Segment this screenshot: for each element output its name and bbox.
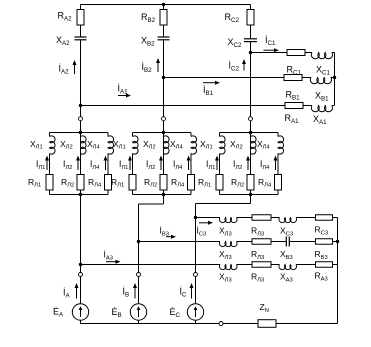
- svg-text:XЛ2: XЛ2: [60, 139, 73, 151]
- wire group 1 branch Л2 top lead: [80, 133, 82, 137]
- svg-text:RЛ3: RЛ3: [251, 249, 264, 261]
- wire group 1 top bus: [50, 132, 109, 134]
- svg-text:XЛ4: XЛ4: [257, 139, 270, 151]
- terminal source B: [137, 273, 141, 277]
- wire X_A1 to right bus: [332, 105, 335, 107]
- wire phase C jog: [250, 195, 252, 204]
- inductor X_Л1 group 1: [50, 136, 56, 154]
- wire C1 branch: [251, 52, 288, 54]
- wire R_B2 to X_B2: [163, 25, 165, 37]
- wire source B bottom: [138, 320, 140, 323]
- wire group 2 branch Л4 middle: [190, 154, 192, 175]
- svg-text:ĖB: ĖB: [112, 307, 122, 319]
- capacitor X_A2: [75, 36, 87, 38]
- wire right bus lower block: [337, 218, 339, 324]
- capacitor X_C2: [244, 38, 257, 40]
- source E_A: [72, 304, 88, 320]
- svg-text:İЛ4: İЛ4: [90, 159, 100, 171]
- wire group 1 branch Л1 top lead: [49, 133, 51, 137]
- current arrow I_A2: [74, 64, 76, 74]
- resistor R_Л1 group 3: [216, 175, 223, 191]
- svg-text:İA1: İA1: [118, 84, 129, 96]
- svg-text:İC: İC: [180, 287, 188, 299]
- svg-text:RЛ1: RЛ1: [28, 177, 41, 189]
- current arrow I_C: [191, 287, 193, 299]
- wire group 3 branch Л4 middle: [277, 154, 279, 175]
- svg-text:RЛ3: RЛ3: [251, 272, 264, 284]
- svg-text:RЛ4: RЛ4: [258, 177, 272, 189]
- wire group 2 branch Л4 top lead: [190, 133, 192, 137]
- svg-text:RC2: RC2: [225, 12, 240, 24]
- wire A1 branch: [81, 105, 286, 107]
- node C1 junction: [249, 51, 252, 54]
- resistor R_C2: [247, 10, 254, 26]
- svg-text:XC2: XC2: [228, 37, 242, 49]
- resistor R_Л1 group 1: [46, 175, 53, 191]
- node C3 junction: [194, 216, 197, 219]
- svg-text:İЛ1: İЛ1: [36, 159, 45, 171]
- wire B3: [237, 241, 253, 243]
- wire group 3 branch Л2 top lead: [250, 133, 252, 137]
- wire group 2 top bus: [133, 132, 192, 134]
- current arrow I_Л1 group 3: [216, 160, 218, 171]
- inductor X_A3: [279, 265, 297, 270]
- wire group 1 branch Л1 bottom lead: [49, 190, 51, 195]
- wire R_A2 to X_A2: [80, 25, 82, 37]
- wire group 2 branch Л2 bottom lead: [163, 190, 165, 195]
- current arrow I_Л2 group 3: [247, 160, 249, 171]
- svg-text:İЛ2: İЛ2: [146, 159, 155, 171]
- inductor X_L3 row C3: [219, 218, 237, 223]
- wire group 1 branch Л2 bottom lead: [80, 190, 82, 195]
- svg-text:RЛ3: RЛ3: [251, 226, 264, 238]
- svg-text:İЛ4: İЛ4: [173, 159, 183, 171]
- wire group 3 branch Л1 top lead: [219, 133, 221, 137]
- wire group 1 branch Л4 bottom lead: [107, 190, 109, 195]
- svg-text:RC3: RC3: [315, 225, 329, 237]
- resistor R_Л4 group 3: [275, 175, 282, 191]
- svg-text:İB3: İB3: [160, 226, 169, 238]
- wire source C bottom: [195, 320, 197, 323]
- wire group 3 branch Л1 bottom lead: [219, 190, 221, 195]
- current arrow I_Л1 group 2: [129, 160, 131, 171]
- svg-text:RЛ2: RЛ2: [61, 177, 74, 189]
- node right bus B3: [336, 240, 339, 243]
- svg-text:XЛ4: XЛ4: [87, 139, 100, 151]
- terminal source A: [79, 273, 83, 277]
- current arrow I_B2: [157, 62, 159, 72]
- svg-text:ZN: ZN: [260, 302, 269, 314]
- svg-text:İЛ2: İЛ2: [63, 159, 72, 171]
- inductor X_C1: [311, 53, 332, 59]
- wire R_A1 to X_A1: [303, 105, 312, 107]
- inductor X_B1: [310, 78, 331, 84]
- node group 2 bottom: [162, 193, 165, 196]
- node A3 junction: [79, 263, 82, 266]
- current arrow I_Л4 group 3: [275, 160, 277, 171]
- node B1 junction: [162, 76, 165, 79]
- inductor X_Л1 group 2: [133, 136, 139, 154]
- resistor R_A3: [316, 262, 333, 268]
- svg-text:XA1: XA1: [313, 114, 327, 126]
- resistor R_Л2 group 1: [77, 175, 84, 191]
- wire group 2 branch Л2 middle: [163, 154, 165, 175]
- node top bus / R_B2 junction: [162, 3, 165, 6]
- svg-text:RB2: RB2: [141, 12, 156, 24]
- wire B3: [289, 241, 315, 243]
- svg-text:İB2: İB2: [142, 62, 153, 74]
- wire group 3 branch Л1 middle: [219, 154, 221, 175]
- wire B3 lead: [139, 241, 221, 243]
- wire group 1 branch Л4 middle: [107, 154, 109, 175]
- wire group 1 branch Л2 middle: [80, 154, 82, 175]
- wire group 2 branch Л1 bottom lead: [132, 190, 134, 195]
- current arrow I_Л4 group 2: [188, 160, 190, 171]
- resistor Z_N: [258, 320, 276, 328]
- svg-text:İC2: İC2: [229, 61, 240, 73]
- svg-text:XЛ3: XЛ3: [219, 272, 232, 284]
- wire phase C vertical upper: [250, 42, 252, 195]
- wire A3: [237, 264, 253, 266]
- wire group 2 branch Л2 top lead: [163, 133, 165, 137]
- svg-text:RA3: RA3: [315, 271, 328, 283]
- terminal phase B: [162, 117, 166, 121]
- svg-text:XЛ3: XЛ3: [219, 226, 232, 238]
- wire C3: [237, 217, 253, 219]
- current arrow I_B: [134, 287, 136, 299]
- wire phase A lower: [80, 265, 82, 305]
- inductor X_Л4 group 3: [278, 136, 284, 154]
- wire R_B2 top lead: [163, 5, 165, 10]
- resistor R_C3: [316, 215, 333, 221]
- wire R_C2 top lead: [250, 5, 252, 10]
- wire group 1 bottom bus: [50, 194, 109, 196]
- svg-text:RЛ1: RЛ1: [198, 177, 211, 189]
- svg-text:İЛ4: İЛ4: [260, 159, 270, 171]
- wire group 3 bottom bus: [220, 194, 279, 196]
- resistor R_A2: [77, 10, 84, 26]
- svg-text:RA2: RA2: [58, 11, 73, 23]
- source E_B: [130, 304, 146, 320]
- wire bottom return right: [276, 323, 338, 325]
- svg-text:RB3: RB3: [315, 249, 328, 261]
- node right bus B1: [333, 76, 336, 79]
- svg-text:XЛ4: XЛ4: [170, 139, 183, 151]
- svg-text:İA: İA: [63, 288, 71, 300]
- inductor X_C3: [279, 218, 297, 223]
- resistor R_A1: [285, 103, 303, 109]
- terminal neutral: [219, 322, 223, 326]
- svg-text:İЛ1: İЛ1: [206, 159, 215, 171]
- inductor X_Л4 group 2: [191, 136, 197, 154]
- svg-text:XB3: XB3: [280, 249, 293, 261]
- current arrow i_C1: [264, 49, 276, 51]
- wire phase A vertical: [80, 40, 82, 265]
- svg-text:RA1: RA1: [285, 113, 300, 125]
- wire B3: [271, 241, 286, 243]
- node group 3 bottom: [249, 193, 252, 196]
- current arrow I_B1: [203, 82, 216, 84]
- svg-text:İA2: İA2: [59, 64, 70, 76]
- inductor X_Л2 group 3: [251, 136, 257, 154]
- inductor X_L3 row A3: [219, 265, 237, 270]
- svg-text:XC3: XC3: [280, 226, 293, 238]
- svg-text:XЛ3: XЛ3: [219, 249, 232, 261]
- wire R_C2 to X_C2: [250, 25, 252, 39]
- svg-text:XЛ2: XЛ2: [230, 139, 243, 151]
- inductor X_Л2 group 1: [81, 136, 87, 154]
- wire right bus upper block: [334, 53, 336, 106]
- terminal phase C: [249, 117, 253, 121]
- wire C3 lead: [196, 217, 221, 219]
- node group 1 bottom: [79, 193, 82, 196]
- svg-text:XЛ1: XЛ1: [30, 139, 43, 151]
- svg-text:XЛ1: XЛ1: [200, 139, 213, 151]
- svg-text:RЛ2: RЛ2: [231, 177, 244, 189]
- svg-text:ĖC: ĖC: [170, 307, 181, 319]
- svg-text:XB2: XB2: [141, 36, 155, 48]
- current arrow I_Л1 group 1: [46, 160, 48, 171]
- wire A3: [271, 264, 280, 266]
- capacitor X_B2: [158, 36, 170, 38]
- node group 3 top: [249, 131, 252, 134]
- current arrow I_Л4 group 1: [105, 160, 107, 171]
- wire phase B vertical upper: [163, 40, 165, 195]
- wire phase B jog: [163, 195, 165, 205]
- terminal source C: [194, 273, 198, 277]
- current arrow I_C3: [199, 222, 209, 224]
- inductor X_A1: [311, 106, 332, 112]
- wire group 2 bottom bus: [133, 194, 192, 196]
- node group 1 top: [79, 131, 82, 134]
- resistor R_Л4 group 1: [105, 175, 112, 191]
- source E_C: [187, 304, 203, 320]
- svg-text:XA3: XA3: [280, 272, 293, 284]
- svg-text:ĖA: ĖA: [53, 307, 64, 319]
- svg-text:XC1: XC1: [316, 65, 330, 77]
- resistor R_B2: [160, 10, 167, 26]
- resistor R_Л2 group 2: [160, 175, 167, 191]
- svg-text:XЛ1: XЛ1: [113, 139, 126, 151]
- svg-text:İЛ1: İЛ1: [119, 159, 128, 171]
- wire group 3 branch Л4 top lead: [277, 133, 279, 137]
- svg-text:İB1: İB1: [203, 85, 214, 97]
- inductor X_Л2 group 2: [164, 136, 170, 154]
- resistor R_C1: [287, 50, 305, 56]
- resistor R_B3: [316, 239, 333, 245]
- wire source A bottom: [80, 320, 82, 323]
- svg-text:XЛ2: XЛ2: [143, 139, 156, 151]
- node B3 junction: [137, 240, 140, 243]
- wire X_C1 to right bus: [332, 52, 335, 54]
- wire bottom return: [81, 323, 259, 325]
- wire group 1 branch Л1 middle: [49, 154, 51, 175]
- current arrow I_A: [76, 287, 78, 299]
- wire B3 to right bus: [333, 241, 338, 243]
- inductor X_L3 row B3: [219, 242, 237, 247]
- inductor X_Л1 group 3: [220, 136, 226, 154]
- svg-text:RЛ2: RЛ2: [144, 177, 157, 189]
- wire group 2 branch Л1 top lead: [132, 133, 134, 137]
- svg-text:RЛ4: RЛ4: [171, 177, 185, 189]
- wire top bus: [81, 4, 251, 6]
- wire R_C1 to X_C1: [305, 52, 312, 54]
- wire group 3 top bus: [220, 132, 279, 134]
- node group 2 top: [162, 131, 165, 134]
- svg-text:İC3: İC3: [197, 226, 207, 238]
- svg-text:XB1: XB1: [315, 91, 329, 103]
- wire group 1 branch Л4 top lead: [107, 133, 109, 137]
- resistor R_Л1 group 2: [129, 175, 136, 191]
- wire C3 to right bus: [333, 217, 338, 219]
- wire group 3 branch Л4 bottom lead: [277, 190, 279, 195]
- svg-text:İA3: İA3: [104, 250, 113, 262]
- terminal phase A: [79, 117, 83, 121]
- wire R_A2 top lead: [80, 5, 82, 10]
- current arrow I_Л2 group 1: [77, 160, 79, 171]
- inductor X_Л4 group 1: [108, 136, 114, 154]
- resistor R_Л2 group 3: [247, 175, 254, 191]
- wire C3: [296, 217, 316, 219]
- resistor R_B1: [284, 75, 302, 81]
- wire group 3 branch Л2 bottom lead: [250, 190, 252, 195]
- wire A3 to right bus: [333, 264, 338, 266]
- resistor R_L3 row A3: [252, 262, 271, 268]
- svg-text:İB: İB: [123, 287, 130, 299]
- resistor R_Л4 group 2: [188, 175, 195, 191]
- wire X_B1 to right bus: [331, 77, 335, 79]
- resistor R_L3 row B3: [252, 239, 271, 245]
- current arrow I_C2: [243, 63, 245, 71]
- wire group 3 branch Л2 middle: [250, 154, 252, 175]
- svg-text:RB1: RB1: [286, 90, 301, 102]
- wire group 2 branch Л1 middle: [132, 154, 134, 175]
- svg-text:RЛ1: RЛ1: [111, 177, 124, 189]
- svg-text:RЛ4: RЛ4: [88, 177, 102, 189]
- node A1 junction: [79, 104, 82, 107]
- wire C3: [271, 217, 280, 219]
- current arrow I_Л2 group 2: [160, 160, 162, 171]
- capacitor X_B3: [285, 237, 287, 247]
- wire B1 branch: [164, 77, 285, 79]
- svg-text:İЛ2: İЛ2: [233, 159, 242, 171]
- wire A3 lead: [81, 264, 221, 266]
- resistor R_L3 row C3: [252, 215, 271, 221]
- wire R_B1 to X_B1: [302, 77, 311, 79]
- svg-text:İC1: İC1: [265, 35, 276, 47]
- svg-text:XA2: XA2: [56, 35, 70, 47]
- wire group 2 branch Л4 bottom lead: [190, 190, 192, 195]
- wire A3: [296, 264, 316, 266]
